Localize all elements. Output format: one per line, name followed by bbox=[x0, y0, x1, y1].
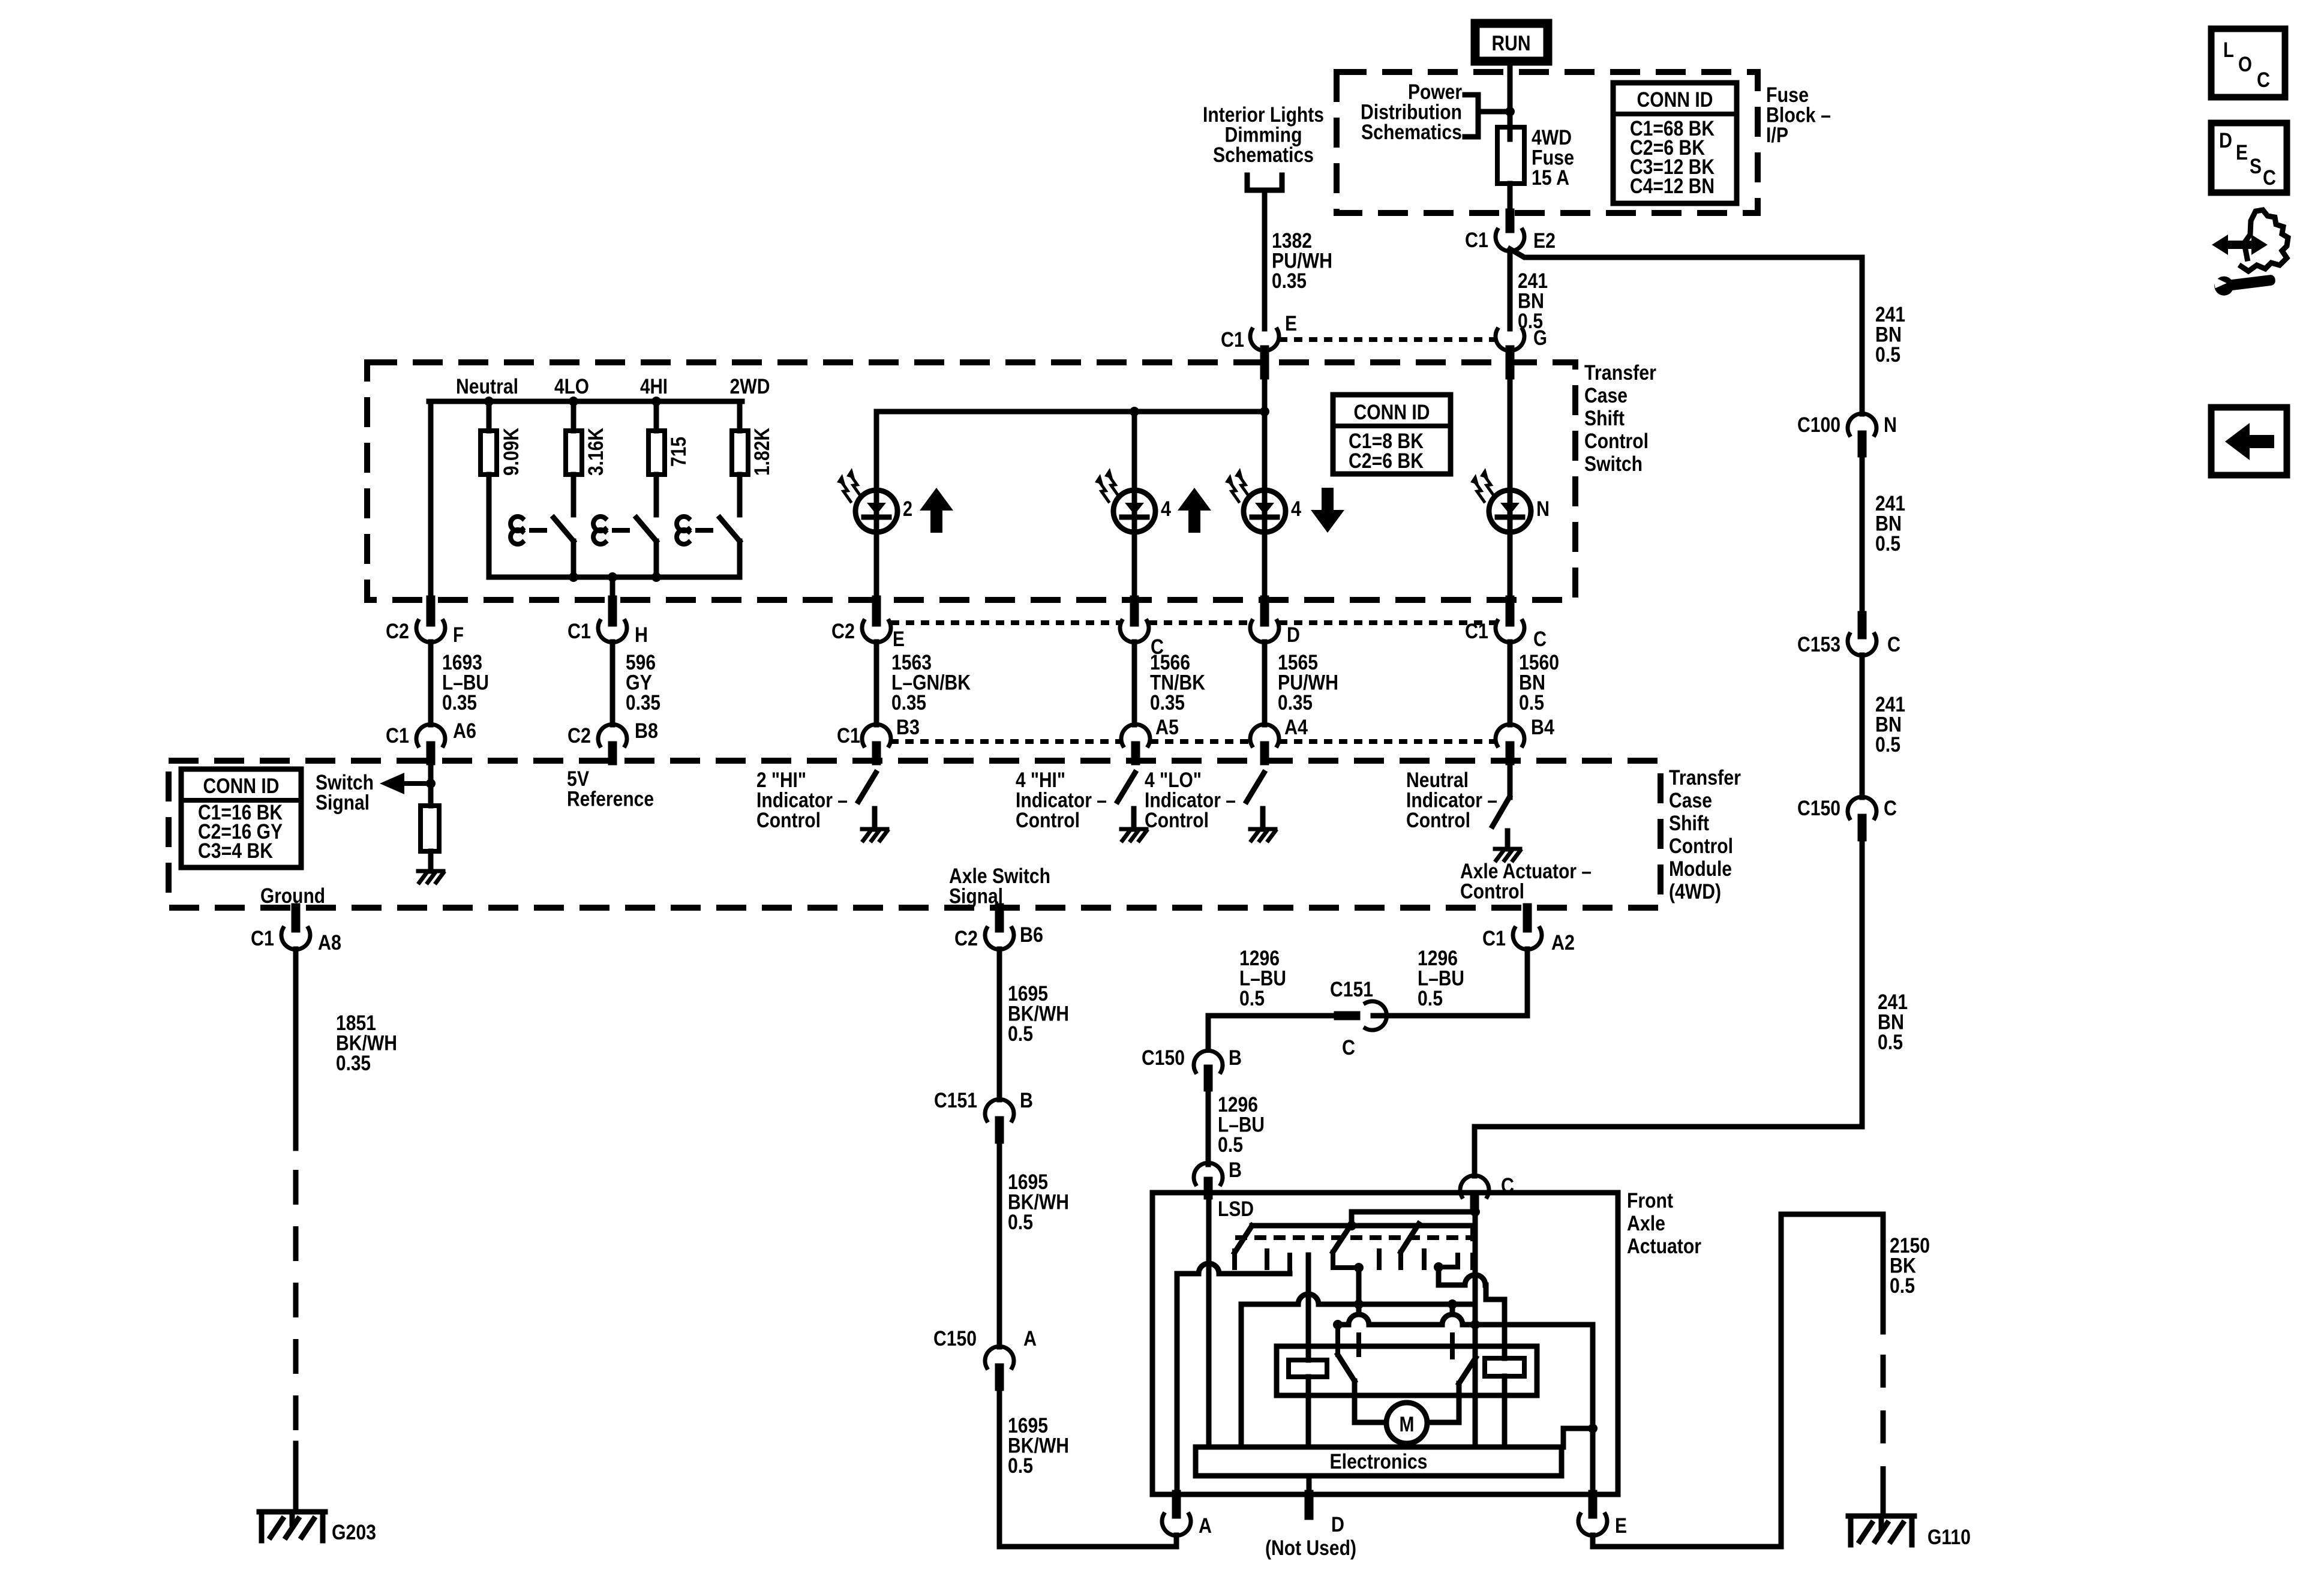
svg-text:0.35: 0.35 bbox=[1272, 269, 1307, 293]
label Axle Switch Signal bbox=[949, 864, 1050, 908]
LSD blade 3 bbox=[1401, 1224, 1419, 1268]
connector C100 N bbox=[1797, 413, 1897, 453]
svg-text:A8: A8 bbox=[318, 931, 341, 954]
label 9.09K bbox=[500, 428, 523, 476]
ground G110 bbox=[1848, 1516, 1914, 1545]
svg-text:C: C bbox=[2263, 166, 2276, 190]
switch blade 4LO bbox=[511, 517, 574, 577]
svg-text:D: D bbox=[1287, 623, 1300, 647]
svg-text:C1: C1 bbox=[1482, 927, 1506, 950]
label Transfer Case Shift Control Switch bbox=[1584, 361, 1656, 476]
svg-text:Axle: Axle bbox=[1627, 1212, 1665, 1235]
label Neutral Indicator Control bbox=[1406, 769, 1497, 832]
svg-text:I/P: I/P bbox=[1766, 124, 1788, 147]
label 1382 PU/WH 0.35 bbox=[1272, 229, 1332, 293]
label 3.16K bbox=[584, 428, 608, 476]
junction dot bottom center tap bbox=[608, 572, 617, 582]
switch 2HI indicator driver bbox=[858, 773, 887, 840]
svg-text:D: D bbox=[1331, 1513, 1344, 1536]
svg-text:Transfer: Transfer bbox=[1584, 361, 1656, 385]
svg-text:C2: C2 bbox=[831, 620, 855, 643]
svg-text:0.35: 0.35 bbox=[626, 691, 660, 715]
svg-text:0.5: 0.5 bbox=[1519, 691, 1544, 715]
label G203 bbox=[332, 1521, 376, 1544]
label 4HI bbox=[640, 375, 668, 398]
connector C1 G bbox=[1496, 326, 1547, 375]
junction dot fuse feed bbox=[1505, 107, 1515, 116]
svg-text:CONN ID: CONN ID bbox=[1354, 401, 1430, 424]
junction dot y2174 right bbox=[1448, 1299, 1457, 1309]
svg-text:0.35: 0.35 bbox=[442, 691, 477, 715]
svg-text:Shift: Shift bbox=[1584, 407, 1625, 430]
resistor switch signal pullup bbox=[421, 806, 439, 871]
label 241 BN 0.5 top bbox=[1875, 303, 1905, 367]
wire y2174 drop to electronics bbox=[1239, 1304, 1244, 1447]
label 1563 L-GN/BK 0.35 bbox=[891, 651, 971, 715]
connector C150 C bbox=[1797, 797, 1897, 837]
svg-text:C1: C1 bbox=[1221, 328, 1244, 352]
label Front Axle Actuator bbox=[1627, 1189, 1701, 1258]
svg-text:C1: C1 bbox=[837, 724, 860, 748]
label 1695 BK/WH 0.5 seg1 bbox=[1008, 982, 1069, 1046]
wire 1695 BK/WH seg3 bbox=[999, 1386, 1176, 1547]
wire center tap to H bbox=[610, 577, 615, 621]
svg-text:A: A bbox=[1199, 1514, 1212, 1538]
resistor 9.09K bbox=[481, 401, 497, 577]
fuse block I/P dashed box bbox=[1337, 72, 1758, 213]
svg-text:Control: Control bbox=[1145, 809, 1209, 832]
interior lights reference bracket bbox=[1247, 175, 1282, 190]
svg-text:4: 4 bbox=[1161, 497, 1171, 521]
svg-text:C: C bbox=[1342, 1036, 1355, 1059]
label 241 BN 0.5 at G bbox=[1518, 269, 1548, 333]
connector row3 dashed line bbox=[890, 739, 1496, 744]
label 1296 L-BU 0.5 mid bbox=[1218, 1093, 1265, 1157]
solenoid coil left bbox=[1289, 1255, 1327, 1447]
svg-text:E: E bbox=[1615, 1514, 1627, 1538]
svg-text:C2=6 BK: C2=6 BK bbox=[1349, 449, 1424, 473]
connector C2 B6 bbox=[954, 908, 1043, 950]
svg-text:C: C bbox=[1887, 633, 1900, 656]
svg-text:D: D bbox=[2219, 129, 2232, 152]
svg-text:2: 2 bbox=[903, 497, 912, 521]
junction dot LSD bar bbox=[1347, 1221, 1356, 1230]
junction dot LED bus 4HI bbox=[1130, 407, 1139, 416]
label 1296 L-BU 0.5 right bbox=[1418, 947, 1464, 1010]
wire stationary left bbox=[1356, 1268, 1362, 1355]
label 1560 BN 0.5 bbox=[1519, 651, 1559, 715]
svg-text:Control: Control bbox=[1016, 809, 1080, 832]
connector D row2 bbox=[1250, 600, 1300, 647]
wire 2150 dashed bbox=[1881, 1332, 1886, 1516]
svg-text:H: H bbox=[635, 623, 648, 647]
svg-text:Module: Module bbox=[1669, 857, 1732, 881]
svg-text:Schematics: Schematics bbox=[1213, 143, 1314, 167]
svg-text:C151: C151 bbox=[1330, 978, 1373, 1001]
svg-text:0.5: 0.5 bbox=[1008, 1211, 1033, 1234]
solenoid frame bbox=[1277, 1346, 1537, 1395]
svg-text:C100: C100 bbox=[1797, 413, 1840, 437]
connector C151 C inline bbox=[1330, 978, 1387, 1059]
label Switch Signal bbox=[316, 771, 374, 815]
svg-text:N: N bbox=[1536, 497, 1550, 521]
connector A5 row3 bbox=[1121, 716, 1179, 761]
svg-text:4HI: 4HI bbox=[640, 375, 668, 398]
svg-text:F: F bbox=[453, 623, 464, 647]
wire 1566 TN/BK bbox=[1132, 642, 1137, 725]
label 2150 BK 0.5 bbox=[1890, 1234, 1930, 1298]
svg-text:C4=12 BN: C4=12 BN bbox=[1630, 175, 1715, 198]
LED indicator 4LO bbox=[1225, 412, 1301, 621]
svg-text:E: E bbox=[893, 628, 905, 651]
junction dot neutral bbox=[484, 397, 494, 406]
switch 4HI indicator driver bbox=[1118, 773, 1146, 840]
svg-text:4: 4 bbox=[1291, 497, 1301, 521]
svg-text:Control: Control bbox=[1460, 880, 1524, 903]
connector C150 B bbox=[1142, 1046, 1242, 1087]
label 241 BN 0.5 seg2 bbox=[1875, 492, 1905, 556]
switch top bus wire bbox=[429, 399, 742, 404]
connector B4 row3 bbox=[1496, 716, 1554, 761]
label 1851 BK/WH 0.35 bbox=[336, 1011, 397, 1075]
icon wrench pointer bbox=[2212, 210, 2288, 296]
arrow up 4HI bbox=[1178, 488, 1211, 533]
label 5V Reference bbox=[567, 767, 654, 811]
fuse block CONN ID table bbox=[1613, 83, 1737, 203]
connector D actuator bbox=[1265, 1494, 1356, 1560]
svg-text:Case: Case bbox=[1584, 384, 1628, 407]
label Axle Actuator Control bbox=[1460, 860, 1592, 903]
connector C1 C row2 bbox=[1465, 600, 1547, 651]
svg-text:0.5: 0.5 bbox=[1875, 532, 1900, 556]
svg-text:L: L bbox=[2223, 38, 2234, 62]
solenoid coil right bbox=[1485, 1358, 1524, 1447]
connector A actuator bbox=[1162, 1494, 1212, 1538]
wire electronics to E net bbox=[1563, 1428, 1593, 1447]
transfer case shift control switch dashed box bbox=[367, 362, 1575, 600]
resistor 3.16K bbox=[566, 401, 582, 515]
actuator switch blade left bbox=[1338, 1355, 1355, 1422]
switch blade 4HI bbox=[593, 517, 656, 577]
svg-text:Signal: Signal bbox=[316, 791, 370, 815]
svg-text:(4WD): (4WD) bbox=[1669, 880, 1721, 903]
svg-text:0.5: 0.5 bbox=[1518, 310, 1543, 333]
svg-text:0.5: 0.5 bbox=[1875, 343, 1900, 367]
label 596 GY 0.35 bbox=[626, 651, 660, 715]
LED indicator Neutral bbox=[1470, 375, 1550, 621]
wire 1851 dashed to G203 bbox=[293, 1148, 299, 1512]
wire 1851 solid bbox=[293, 949, 299, 1148]
label Fuse Block I/P bbox=[1766, 83, 1831, 147]
svg-text:S: S bbox=[2250, 155, 2262, 178]
svg-text:CONN ID: CONN ID bbox=[1637, 88, 1713, 112]
wire 1560 BN bbox=[1508, 642, 1513, 725]
svg-text:B3: B3 bbox=[896, 716, 920, 739]
wire neutral column drop bbox=[428, 401, 434, 621]
icon DESC box bbox=[2211, 123, 2287, 193]
junction dot 4HI bbox=[651, 397, 661, 406]
wire LSD bar to pin C net bbox=[1352, 1212, 1475, 1226]
svg-text:Front: Front bbox=[1627, 1189, 1673, 1212]
connector C2 B8 bbox=[568, 719, 658, 761]
svg-text:CONN ID: CONN ID bbox=[203, 775, 280, 798]
svg-text:A: A bbox=[1023, 1327, 1037, 1350]
front axle actuator box bbox=[1152, 1193, 1618, 1494]
resistor 1.82K bbox=[732, 401, 748, 515]
svg-text:Transfer: Transfer bbox=[1669, 766, 1741, 789]
label 1296 L-BU 0.5 left bbox=[1239, 947, 1286, 1010]
label 1695 BK/WH 0.5 seg2 bbox=[1008, 1170, 1069, 1234]
svg-text:0.5: 0.5 bbox=[1875, 733, 1900, 757]
svg-text:0.35: 0.35 bbox=[336, 1052, 371, 1075]
ignition switch RUN feed box bbox=[1475, 23, 1548, 61]
connector C1 E bbox=[1221, 312, 1297, 375]
junction dot bottom 4HI bbox=[651, 572, 661, 582]
label 4LO bbox=[554, 375, 589, 398]
svg-text:0.5: 0.5 bbox=[1878, 1031, 1903, 1054]
svg-text:B: B bbox=[1020, 1089, 1033, 1112]
label 2WD bbox=[730, 375, 770, 398]
label Interior Lights Dimming Schematics bbox=[1203, 103, 1324, 167]
label 715 bbox=[667, 437, 690, 467]
LSD right contact bbox=[1439, 1255, 1458, 1267]
svg-text:E2: E2 bbox=[1533, 229, 1556, 253]
connector C1 B3 bbox=[837, 716, 920, 761]
label 241 BN 0.5 seg4 bbox=[1878, 990, 1908, 1054]
switch 4LO indicator driver bbox=[1247, 773, 1275, 840]
connector C front axle actuator bbox=[1460, 1174, 1514, 1208]
LSD shoe slant 1 bbox=[1235, 1226, 1252, 1253]
svg-text:0.5: 0.5 bbox=[1418, 987, 1443, 1010]
label 1695 BK/WH 0.5 seg3 bbox=[1008, 1414, 1069, 1478]
connector A4 row3 bbox=[1250, 716, 1308, 761]
wire stationary right bbox=[1450, 1304, 1455, 1357]
svg-text:0.5: 0.5 bbox=[1008, 1454, 1033, 1478]
label 1565 PU/WH 0.35 bbox=[1278, 651, 1338, 715]
label Power Distribution Schematics bbox=[1361, 80, 1462, 144]
wire pin A internal bbox=[1175, 1274, 1180, 1494]
svg-text:RUN: RUN bbox=[1492, 32, 1531, 55]
svg-text:C150: C150 bbox=[1797, 797, 1840, 820]
wire 241 BN E2 to G bbox=[1508, 251, 1513, 329]
svg-text:G110: G110 bbox=[1927, 1526, 1971, 1549]
wire 1695 BK/WH seg2 bbox=[997, 1139, 1002, 1347]
svg-text:C: C bbox=[1533, 628, 1547, 651]
label 4 HI Indicator Control bbox=[1016, 769, 1107, 832]
svg-text:0.5: 0.5 bbox=[1890, 1274, 1915, 1298]
svg-text:Switch: Switch bbox=[1584, 452, 1643, 476]
junction dot bottom 4LO bbox=[569, 572, 578, 582]
svg-text:1.82K: 1.82K bbox=[750, 428, 774, 476]
svg-text:LSD: LSD bbox=[1218, 1197, 1254, 1221]
power distribution schematics reference bracket bbox=[1465, 95, 1510, 137]
wire 1296 A2 down bbox=[1373, 949, 1527, 1016]
label 1566 TN/BK 0.35 bbox=[1150, 651, 1205, 715]
svg-text:0.35: 0.35 bbox=[1150, 691, 1185, 715]
connector E actuator bbox=[1578, 1494, 1627, 1538]
connector C1 A2 bbox=[1482, 908, 1575, 954]
svg-text:E: E bbox=[2236, 141, 2248, 164]
svg-text:Control: Control bbox=[1584, 430, 1649, 453]
label Neutral bbox=[456, 375, 518, 398]
ground G203 bbox=[259, 1512, 325, 1541]
wire pin C internal bbox=[1473, 1193, 1478, 1447]
svg-text:O: O bbox=[2238, 53, 2252, 76]
LSD contact bar bbox=[1252, 1223, 1473, 1229]
wire A6 to resistor bbox=[428, 761, 434, 806]
svg-text:N: N bbox=[1884, 413, 1897, 437]
svg-text:C1: C1 bbox=[1465, 229, 1488, 252]
switch bottom bus bbox=[489, 575, 740, 580]
label 2 HI Indicator Control bbox=[756, 769, 848, 832]
svg-text:C: C bbox=[1884, 797, 1897, 820]
svg-text:B6: B6 bbox=[1020, 923, 1043, 947]
connector C151 B bbox=[934, 1089, 1033, 1139]
wire E2 to C100 branch bbox=[1510, 249, 1862, 257]
connector C2 F bbox=[386, 600, 464, 647]
svg-text:Electronics: Electronics bbox=[1330, 1450, 1428, 1473]
LSD linkage dashed bbox=[1235, 1235, 1472, 1240]
svg-text:C1: C1 bbox=[568, 620, 591, 643]
wire net y2174 bbox=[1241, 1294, 1475, 1304]
arrow down 4LO bbox=[1311, 488, 1344, 533]
wire pin B internal bbox=[1206, 1193, 1212, 1447]
svg-text:Reference: Reference bbox=[567, 788, 654, 811]
junction dot pin C top bbox=[1470, 1207, 1480, 1217]
wire 1565 PU/WH bbox=[1262, 642, 1268, 725]
svg-text:0.5: 0.5 bbox=[1239, 987, 1265, 1010]
svg-text:Neutral: Neutral bbox=[456, 375, 518, 398]
switch blade 2WD bbox=[677, 517, 740, 577]
svg-text:0.35: 0.35 bbox=[891, 691, 926, 715]
label 1.82K bbox=[750, 428, 774, 476]
wire blade L top bbox=[1335, 1325, 1340, 1355]
svg-text:C2: C2 bbox=[568, 724, 591, 748]
LSD contact posts bbox=[1235, 1251, 1424, 1268]
svg-text:E: E bbox=[1285, 312, 1297, 335]
arrow up 2HI bbox=[920, 488, 953, 533]
ground module internal bbox=[418, 871, 443, 882]
wire 596 GY bbox=[610, 642, 615, 725]
wire 1382 PU/WH bbox=[1262, 190, 1268, 329]
junction dot LSD blade2 bbox=[1354, 1263, 1364, 1272]
label Transfer Case Shift Control Module 4WD bbox=[1669, 766, 1741, 903]
svg-text:A6: A6 bbox=[453, 719, 476, 743]
svg-text:715: 715 bbox=[667, 437, 690, 467]
connector C1 A6 bbox=[386, 719, 476, 761]
svg-text:C: C bbox=[2257, 68, 2270, 92]
label 1693 L-BU 0.35 bbox=[442, 651, 489, 715]
switch CONN ID table bbox=[1333, 395, 1451, 474]
junction dot LSD right bbox=[1434, 1262, 1443, 1272]
wire 1296 seg2 bbox=[1206, 1087, 1211, 1164]
svg-text:M: M bbox=[1400, 1413, 1415, 1436]
wire 241 BN seg3 bbox=[1860, 655, 1865, 797]
wire 1695 BK/WH seg1 bbox=[997, 949, 1002, 1100]
svg-text:4LO: 4LO bbox=[554, 375, 589, 398]
svg-text:Control: Control bbox=[756, 809, 821, 832]
wire pin E to G110 run bbox=[1593, 1214, 1883, 1547]
connector C1 A8 bbox=[251, 908, 341, 954]
svg-text:Case: Case bbox=[1669, 789, 1712, 812]
wire right coil feed bbox=[1439, 1267, 1505, 1358]
LSD bar end stub bbox=[1470, 1226, 1475, 1268]
junction dot E net bbox=[1588, 1424, 1598, 1433]
transfer case shift control module dashed box bbox=[169, 761, 1661, 908]
junction dot y2174 left bbox=[1354, 1299, 1364, 1309]
wire 1693 L-BU bbox=[428, 642, 434, 725]
motor M bbox=[1355, 1403, 1459, 1443]
svg-text:C150: C150 bbox=[933, 1327, 977, 1350]
svg-text:Control: Control bbox=[1406, 809, 1470, 832]
wire 1296 to C150B bbox=[1208, 1016, 1338, 1047]
svg-text:(Not Used): (Not Used) bbox=[1265, 1536, 1356, 1560]
label LSD bbox=[1218, 1197, 1254, 1221]
svg-text:C3=4 BK: C3=4 BK bbox=[198, 839, 273, 863]
LED indicator 2HI bbox=[837, 412, 912, 621]
connector C153 C bbox=[1797, 616, 1900, 656]
electronics box bbox=[1196, 1447, 1562, 1476]
wire 241 BN top run bbox=[1860, 257, 1865, 414]
svg-text:A5: A5 bbox=[1155, 716, 1179, 739]
svg-text:Shift: Shift bbox=[1669, 812, 1709, 835]
svg-text:15 A: 15 A bbox=[1532, 166, 1569, 190]
svg-text:B4: B4 bbox=[1531, 716, 1554, 739]
wire pin E internal bbox=[1590, 1325, 1596, 1494]
connector C2 E row2 bbox=[831, 600, 905, 651]
junction dot y2208 right bbox=[1470, 1320, 1480, 1329]
svg-text:B8: B8 bbox=[635, 719, 658, 743]
svg-text:A2: A2 bbox=[1551, 931, 1575, 954]
svg-text:C151: C151 bbox=[934, 1089, 977, 1112]
svg-text:C1: C1 bbox=[386, 724, 409, 748]
svg-text:G203: G203 bbox=[332, 1521, 376, 1544]
wire RUN to fuse bbox=[1508, 65, 1513, 112]
label G110 bbox=[1927, 1526, 1971, 1549]
svg-text:C150: C150 bbox=[1142, 1046, 1185, 1070]
svg-text:A4: A4 bbox=[1284, 716, 1308, 739]
svg-text:Control: Control bbox=[1669, 834, 1733, 858]
label 4WD Fuse 15A bbox=[1532, 126, 1574, 190]
switch signal arrow bbox=[380, 773, 431, 794]
label Ground bbox=[260, 884, 325, 908]
connector C1 H bbox=[568, 600, 648, 647]
junction dot y2208 left bbox=[1333, 1320, 1343, 1329]
resistor 715 bbox=[648, 401, 665, 515]
wire E drop to LED bus bbox=[1262, 375, 1268, 412]
icon LOC box bbox=[2211, 29, 2285, 97]
connector B front axle actuator bbox=[1194, 1158, 1242, 1195]
wire pin A to LSD contact bbox=[1177, 1255, 1290, 1274]
LED indicator 4HI bbox=[1095, 412, 1171, 621]
icon back arrow box bbox=[2211, 407, 2287, 475]
svg-text:C2: C2 bbox=[954, 927, 978, 950]
connector C row2 bbox=[1120, 600, 1164, 659]
fuse 4WD 15A bbox=[1497, 112, 1524, 213]
svg-text:0.5: 0.5 bbox=[1008, 1022, 1033, 1046]
svg-text:C2: C2 bbox=[386, 620, 409, 643]
svg-text:0.5: 0.5 bbox=[1218, 1133, 1243, 1157]
svg-text:C153: C153 bbox=[1797, 633, 1840, 656]
svg-text:3.16K: 3.16K bbox=[584, 428, 608, 476]
wire pin D internal bbox=[1307, 1476, 1312, 1494]
wire 241 BN seg2 bbox=[1860, 453, 1865, 616]
svg-text:B: B bbox=[1229, 1046, 1242, 1070]
connector row dashed line E-G bbox=[1279, 337, 1496, 342]
label 4 LO Indicator Control bbox=[1145, 769, 1236, 832]
connector row2 dashed line bbox=[891, 620, 1496, 625]
svg-text:2WD: 2WD bbox=[730, 375, 770, 398]
